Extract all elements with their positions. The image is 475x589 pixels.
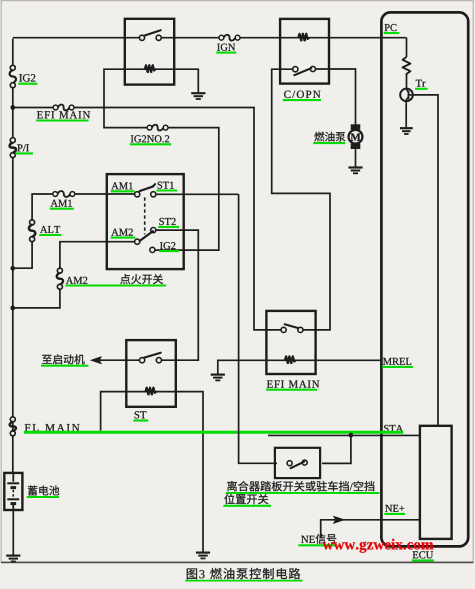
- label IG2 terminal: [159, 242, 179, 251]
- relay EFI MAIN box: [266, 311, 315, 374]
- relay C/OPN coil: [298, 34, 309, 42]
- wire - ST coil left to FL MAIN line: [101, 392, 127, 431]
- wire - C/OPN switch right to fuel pump: [316, 69, 356, 125]
- wire - resistor to transistor: [406, 75, 408, 89]
- wire - R1 coil right to ground: [174, 69, 198, 92]
- label STA: [384, 425, 403, 432]
- contact IG2: [150, 247, 155, 252]
- relay R1 coil: [145, 65, 156, 73]
- wire - fuel pump to ground: [355, 149, 357, 167]
- label AM2 fuse: [66, 277, 88, 284]
- wire - ST coil right to ground: [176, 392, 203, 552]
- label 至启动机: [41, 354, 88, 365]
- label 燃油泵: [313, 132, 345, 143]
- label MREL: [382, 358, 413, 367]
- wire - ALT fuse to rail: [15, 242, 32, 269]
- relay C/OPN box: [280, 19, 329, 84]
- wire - clutch switch left to ST1: [239, 194, 277, 463]
- wire - battery rail to relay1 switch: [13, 37, 139, 39]
- wire - battery to ground: [12, 510, 14, 555]
- wire FL MAIN/STA (green): [24, 431, 403, 434]
- fuse ALT: [29, 220, 35, 242]
- wire - IG2NO.2 fuse to IG2 terminal: [155, 128, 219, 251]
- label 离合器踏板开关或驻车挡/空挡: [226, 481, 380, 493]
- contact ST1: [151, 192, 156, 197]
- junction - clutch switch tap: [349, 433, 354, 438]
- label ST: [133, 411, 148, 420]
- wire - C/OPN switch left to EFI MAIN relay contact: [272, 69, 330, 330]
- label 蓄电池: [27, 486, 59, 498]
- label ST1 terminal: [156, 182, 177, 191]
- label AM1 terminal: [111, 182, 135, 191]
- ignition switch arm AM1-ST1: [140, 184, 155, 191]
- clutch switch contacts: [287, 460, 307, 468]
- resistor R (pull-up): [403, 57, 411, 75]
- wire - EFI MAIN fuse to EFI MAIN relay: [74, 108, 281, 330]
- wire - EFI MAIN coil right to MREL: [316, 359, 382, 361]
- ground - ST coil: [196, 553, 210, 559]
- label NE信号: [298, 534, 336, 546]
- fuse IG2: [10, 65, 16, 87]
- wire - NE signal to NE+: [321, 520, 420, 538]
- wire - AM1 contact to fuse: [75, 193, 135, 195]
- green underline AM2/点火开关: [65, 284, 166, 286]
- label AM1 fuse: [50, 200, 74, 209]
- arrow - NE+: [333, 516, 346, 524]
- label EFI MAIN relay: [266, 381, 319, 390]
- wire - STA black under green: [268, 434, 420, 436]
- wire - AM2 contact to fuse: [60, 242, 135, 268]
- fuse IGN: [219, 35, 240, 41]
- wire - ST coil interior: [126, 391, 176, 393]
- battery B1: [4, 473, 22, 510]
- relay ST box: [126, 340, 176, 407]
- wire - R1 coil left to IG2NO.2 fuse: [104, 69, 147, 127]
- wire - IGN fuse to PC (through C/OPN coil): [240, 37, 407, 39]
- contact AM2: [135, 239, 140, 244]
- ignition switch link (dashed): [144, 197, 146, 234]
- junction - ALT tap: [10, 266, 15, 271]
- wire - PC to resistor: [406, 38, 408, 57]
- fuse AM1: [53, 191, 75, 197]
- label NE+: [384, 505, 405, 514]
- label ALT: [39, 226, 61, 235]
- wire - left rail (IG2 to P/I): [12, 88, 14, 138]
- label ST2 terminal: [158, 218, 179, 227]
- ground - battery: [6, 556, 20, 562]
- clutch switch box: [275, 448, 320, 478]
- wire - Tr base to driver block: [413, 95, 438, 426]
- ground - fuel pump: [348, 168, 362, 174]
- ignition switch box: [107, 174, 184, 269]
- label C/OPN: [283, 91, 321, 101]
- wire - R1 coil interior: [125, 68, 174, 70]
- fuse FL MAIN: [10, 417, 16, 436]
- watermark: [323, 539, 434, 553]
- contact AM1: [135, 192, 140, 197]
- fuel pump motor M: [349, 124, 363, 149]
- ECU driver block: [420, 426, 452, 539]
- fuse AM2: [57, 268, 63, 289]
- relay R1 box: [125, 19, 174, 85]
- ground - EFI MAIN coil: [211, 375, 225, 381]
- wire - ST1 to clutch line: [156, 193, 239, 195]
- wire - left rail top segment: [12, 39, 14, 66]
- arrow - to starter: [90, 356, 102, 364]
- wire - EFI MAIN coil left to ground: [218, 360, 267, 373]
- fuse IG2NO.2: [147, 125, 168, 131]
- fuse P/I: [10, 138, 16, 158]
- label 点火开关: [120, 274, 163, 284]
- label 位置开关: [223, 494, 271, 506]
- label PC: [384, 24, 400, 33]
- ground - relay R1: [191, 93, 205, 99]
- relay ST switch: [140, 353, 162, 363]
- junction - EFI MAIN tap: [10, 105, 15, 110]
- wire - EFI MAIN coil interior: [266, 359, 315, 361]
- label AM2 terminal: [111, 229, 136, 238]
- contact ST2: [151, 228, 156, 233]
- relay C/OPN switch: [293, 66, 316, 75]
- fuse EFI MAIN: [53, 105, 74, 111]
- label IGN: [216, 44, 236, 53]
- label IG2NO.2: [130, 135, 171, 144]
- relay R1 switch: [139, 30, 161, 40]
- relay ST coil: [146, 388, 157, 396]
- label IG2: [18, 74, 37, 84]
- label FL MAIN: [25, 424, 80, 431]
- transistor Tr: [400, 89, 413, 102]
- label EFI MAIN fuse: [36, 111, 90, 120]
- junction - AM2 tap: [10, 306, 15, 311]
- wire - relay1 switch to IGN fuse: [161, 37, 219, 39]
- ECU box: [381, 12, 468, 546]
- wire - ST switch left to starter arrow: [100, 359, 139, 361]
- wire - Tr emitter to ground: [405, 101, 407, 127]
- wire - left rail (P/I to battery): [12, 158, 14, 473]
- relay EFI MAIN coil: [285, 356, 296, 364]
- wire - ST2 to ST switch right: [156, 230, 198, 360]
- relay EFI MAIN switch: [281, 324, 303, 332]
- wire - AM1 fuse to ALT fuse: [32, 194, 53, 220]
- ground - transistor: [400, 128, 413, 134]
- label P/I: [15, 144, 33, 153]
- ignition switch arm AM2-ST2: [140, 231, 153, 241]
- label ECU: [412, 551, 434, 560]
- caption 图3 燃油泵控制电路: [185, 568, 302, 581]
- wire - STA to clutch switch right: [322, 435, 351, 463]
- wire - AM2 fuse to rail: [15, 289, 60, 308]
- label Tr: [415, 80, 428, 89]
- wire - rail to EFI MAIN fuse: [13, 107, 54, 109]
